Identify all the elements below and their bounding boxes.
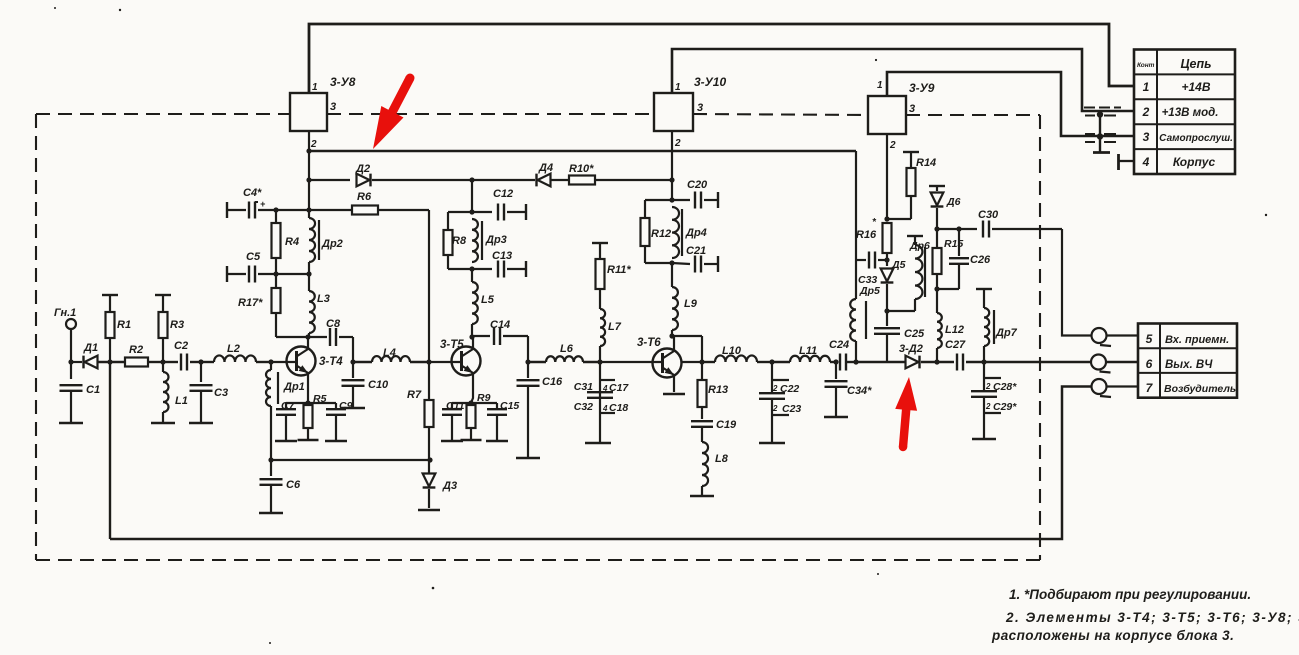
wire T4 emitter bbox=[307, 373, 309, 403]
cable shield of wires 2 and 3 bbox=[1084, 107, 1095, 109]
choke Dr2 bbox=[309, 218, 315, 262]
svg-text:L4: L4 bbox=[383, 347, 396, 359]
svg-text:R8: R8 bbox=[452, 235, 467, 247]
capacitor C13 bbox=[469, 266, 474, 271]
connector table (pins 5-7) frame bbox=[1138, 324, 1237, 398]
resistor R14 bbox=[903, 151, 919, 153]
svg-text:C4*: C4* bbox=[243, 187, 262, 199]
svg-text:C10: C10 bbox=[368, 379, 389, 391]
svg-text:C29*: C29* bbox=[993, 401, 1017, 413]
transistor Q2 3-T5 bbox=[452, 347, 481, 376]
block boundary bottom edge bbox=[36, 559, 1040, 561]
wire T5 emitter bbox=[471, 373, 473, 403]
svg-text:R9: R9 bbox=[477, 392, 491, 404]
block boundary top segment 3 bbox=[693, 114, 868, 115]
wire rail from U8 pin2 bbox=[309, 150, 856, 152]
svg-text:C16: C16 bbox=[542, 376, 563, 388]
svg-text:4: 4 bbox=[602, 404, 608, 413]
bottom return rail bbox=[110, 387, 1091, 540]
paper specks bbox=[119, 9, 121, 11]
svg-text:L2: L2 bbox=[227, 343, 240, 355]
svg-text:C27: C27 bbox=[945, 339, 966, 351]
wire U9 pin2 vertical bbox=[886, 134, 888, 219]
capacitor C20 bbox=[672, 199, 690, 201]
node line C11 R9 C15 bbox=[452, 402, 497, 404]
capacitor C8 bbox=[329, 328, 331, 346]
svg-text:2: 2 bbox=[985, 382, 991, 391]
svg-text:2: 2 bbox=[310, 139, 317, 150]
svg-text:1: 1 bbox=[877, 80, 883, 91]
svg-text:C6: C6 bbox=[286, 479, 301, 491]
svg-text:2: 2 bbox=[889, 140, 896, 151]
resistor R15 bbox=[933, 248, 942, 274]
inductor L2 bbox=[214, 355, 256, 362]
capacitor C28* bbox=[983, 362, 985, 391]
resistor R12 bbox=[645, 199, 672, 201]
svg-text:+: + bbox=[260, 199, 266, 209]
capacitor C12 bbox=[472, 211, 492, 213]
svg-text:L1: L1 bbox=[175, 395, 188, 407]
wire left return vertical bbox=[109, 362, 111, 539]
svg-text:C20: C20 bbox=[687, 179, 708, 191]
module U2 3-U10 bbox=[654, 93, 693, 131]
capacitor C15 bbox=[496, 403, 498, 409]
node line C7 R5 C9 bbox=[286, 402, 336, 404]
svg-text:+13В мод.: +13В мод. bbox=[1162, 107, 1219, 119]
connector pin 6 circle bbox=[1091, 355, 1106, 370]
svg-text:Цепь: Цепь bbox=[1180, 57, 1211, 71]
svg-text:R13: R13 bbox=[708, 384, 728, 396]
svg-text:R5: R5 bbox=[313, 393, 327, 405]
svg-text:3-У10: 3-У10 bbox=[694, 75, 726, 89]
svg-text:C22: C22 bbox=[780, 383, 799, 395]
svg-text:2: 2 bbox=[772, 384, 778, 393]
svg-text:C13: C13 bbox=[492, 250, 512, 262]
connector pin 5 circle bbox=[1092, 328, 1107, 343]
svg-text:Др2: Др2 bbox=[321, 238, 343, 250]
svg-text:C15: C15 bbox=[500, 400, 519, 412]
svg-text:3-Т6: 3-Т6 bbox=[637, 337, 661, 349]
svg-text:C23: C23 bbox=[782, 403, 801, 415]
svg-text:Гн.1: Гн.1 bbox=[54, 307, 76, 319]
svg-text:расположены на корпусе бло: расположены на корпусе блока 3. bbox=[991, 628, 1234, 643]
svg-text:L8: L8 bbox=[715, 453, 729, 465]
inductor L9 bbox=[671, 263, 673, 287]
resistor R5 bbox=[304, 405, 313, 428]
wire T6 emitter ground bbox=[673, 375, 675, 392]
svg-text:L5: L5 bbox=[481, 294, 495, 306]
svg-text:L3: L3 bbox=[317, 293, 330, 305]
svg-text:R7: R7 bbox=[407, 389, 422, 401]
svg-text:C3: C3 bbox=[214, 387, 228, 399]
wire T6 collector node bbox=[673, 336, 675, 351]
svg-text:C9: C9 bbox=[339, 400, 353, 412]
capacitor C6 bbox=[270, 460, 272, 476]
block boundary (dash-dot frame) bbox=[36, 113, 290, 115]
svg-text:3-У8: 3-У8 bbox=[330, 75, 356, 89]
svg-text:3: 3 bbox=[330, 101, 336, 113]
svg-text:C26: C26 bbox=[970, 254, 991, 266]
connector table (pins 1-4) frame bbox=[1134, 50, 1235, 175]
svg-text:7: 7 bbox=[1146, 381, 1154, 395]
svg-text:Корпус: Корпус bbox=[1173, 155, 1216, 169]
diode D1 bbox=[85, 356, 98, 369]
module U3 3-U9 bbox=[868, 96, 906, 134]
capacitor C34* bbox=[830, 361, 836, 363]
svg-text:6: 6 bbox=[1146, 357, 1153, 371]
inductor L1 bbox=[162, 362, 164, 372]
capacitor C19 bbox=[691, 420, 713, 422]
svg-text:C8: C8 bbox=[326, 318, 341, 330]
block boundary top segment 2 bbox=[327, 113, 654, 115]
svg-text:3: 3 bbox=[697, 102, 703, 114]
resistor R3 bbox=[155, 294, 171, 296]
svg-text:C1: C1 bbox=[86, 384, 100, 396]
wire +13V mod rail from U10 pin1 to connector pin 2 bbox=[672, 49, 1134, 111]
svg-text:2: 2 bbox=[772, 404, 778, 413]
svg-text:C11: C11 bbox=[446, 400, 465, 412]
diode D2 bbox=[309, 179, 350, 181]
wire T5 collector bbox=[472, 337, 474, 349]
svg-text:Д2: Д2 bbox=[355, 163, 370, 175]
svg-text:Д6: Д6 bbox=[946, 196, 961, 208]
svg-text:1: 1 bbox=[675, 82, 681, 93]
capacitor C7 bbox=[285, 403, 287, 409]
svg-text:5: 5 bbox=[1146, 332, 1153, 346]
choke Dr6 bbox=[907, 235, 923, 237]
capacitor C31 C17 bbox=[599, 362, 601, 443]
svg-text:Д4: Д4 bbox=[538, 162, 553, 174]
svg-text:Д1: Д1 bbox=[83, 342, 98, 354]
inductor L8 bbox=[702, 442, 708, 486]
svg-text:C2: C2 bbox=[174, 340, 188, 352]
capacitor C16 bbox=[527, 362, 529, 378]
block boundary left edge bbox=[35, 114, 37, 560]
svg-text:R6: R6 bbox=[357, 191, 372, 203]
svg-text:R11*: R11* bbox=[607, 264, 631, 276]
diode D3 bbox=[428, 460, 430, 473]
svg-text:R1: R1 bbox=[117, 319, 131, 331]
svg-text:L12: L12 bbox=[945, 324, 964, 336]
inductor L4 bbox=[353, 361, 372, 363]
svg-text:R12: R12 bbox=[651, 228, 671, 240]
svg-text:3-Т4: 3-Т4 bbox=[319, 356, 343, 368]
svg-text:2: 2 bbox=[985, 402, 991, 411]
svg-text:C24: C24 bbox=[829, 339, 849, 351]
resistor R11* bbox=[592, 242, 608, 244]
svg-text:C19: C19 bbox=[716, 419, 737, 431]
wire D1 to R2 bbox=[98, 361, 125, 363]
resistor R1 bbox=[102, 294, 118, 296]
svg-text:Др3: Др3 bbox=[485, 234, 507, 246]
svg-text:2: 2 bbox=[674, 138, 681, 149]
inductor L10 bbox=[702, 361, 715, 363]
svg-text:1: 1 bbox=[1143, 80, 1150, 94]
resistor R7 bbox=[428, 362, 430, 400]
capacitor C5 bbox=[226, 266, 228, 282]
svg-text:Др5: Др5 bbox=[859, 285, 880, 297]
svg-text:C5: C5 bbox=[246, 251, 261, 263]
svg-text:2: 2 bbox=[1142, 105, 1150, 119]
svg-text:3-У9: 3-У9 bbox=[909, 81, 935, 95]
svg-text:1. *Подбирают при регулирова: 1. *Подбирают при регулировании. bbox=[1009, 587, 1251, 602]
svg-text:C14: C14 bbox=[490, 319, 510, 331]
capacitor C14 bbox=[472, 335, 490, 337]
diode V2 3-D2 bbox=[857, 361, 905, 363]
capacitor C23 bbox=[771, 399, 773, 443]
inductor L11 bbox=[790, 356, 830, 362]
svg-text:Др6: Др6 bbox=[909, 240, 930, 252]
capacitor C30 bbox=[937, 228, 977, 230]
node L7 column bbox=[597, 359, 602, 364]
capacitor C10 bbox=[350, 359, 355, 364]
resistor R6 bbox=[309, 209, 352, 211]
svg-text:Др4: Др4 bbox=[685, 227, 707, 239]
wire C4 line bbox=[276, 209, 309, 211]
svg-text:Конт: Конт bbox=[1137, 62, 1155, 69]
choke Dr1 bbox=[270, 362, 272, 370]
chassis ground at pin 4 bbox=[1117, 154, 1120, 170]
inductor L5 bbox=[471, 269, 473, 282]
svg-text:1: 1 bbox=[312, 82, 318, 93]
svg-text:3: 3 bbox=[1143, 130, 1150, 144]
wire T4 collector bbox=[307, 337, 309, 349]
svg-text:3: 3 bbox=[909, 103, 915, 115]
svg-text:R2: R2 bbox=[129, 344, 143, 356]
module U1 3-U8 bbox=[290, 93, 327, 131]
capacitor C3 bbox=[198, 359, 203, 364]
wire to pin 5 receiver bbox=[1062, 229, 1091, 336]
svg-text:L9: L9 bbox=[684, 298, 698, 310]
capacitor C26 bbox=[956, 226, 961, 231]
capacitor C21 bbox=[669, 260, 674, 265]
choke Dr7 bbox=[976, 288, 992, 290]
svg-text:C34*: C34* bbox=[847, 385, 872, 397]
wire samoproslush rail from U9 pin1 to connector pin 3 bbox=[887, 72, 1134, 136]
svg-text:L6: L6 bbox=[560, 343, 574, 355]
svg-text:R4: R4 bbox=[285, 236, 299, 248]
connector pin 7 circle bbox=[1092, 379, 1107, 394]
inductor L12 bbox=[936, 289, 938, 313]
wire collector node line bbox=[276, 336, 327, 338]
svg-text:3-Т5: 3-Т5 bbox=[440, 339, 464, 351]
wire R6 to R7 column bbox=[428, 210, 430, 362]
svg-text:4: 4 bbox=[1142, 155, 1150, 169]
svg-text:C12: C12 bbox=[493, 188, 513, 200]
capacitor C4 bbox=[226, 202, 228, 218]
inductor L3 bbox=[308, 274, 310, 291]
svg-text:C17: C17 bbox=[609, 382, 629, 394]
wire U10 pin2 vertical bbox=[671, 131, 673, 180]
wire U10 stage column top bbox=[471, 180, 473, 212]
capacitor C9 bbox=[335, 403, 337, 409]
choke Dr4 bbox=[672, 207, 679, 258]
block boundary top segment 4 bbox=[906, 114, 1040, 116]
transistor Q1 3-T4 bbox=[287, 347, 316, 376]
capacitor C11 bbox=[451, 403, 453, 409]
svg-text:C7: C7 bbox=[281, 400, 296, 412]
node Dr7 column bbox=[981, 359, 986, 364]
svg-text:R14: R14 bbox=[916, 157, 936, 169]
resistor R9 bbox=[467, 405, 476, 428]
svg-text:C33: C33 bbox=[858, 274, 877, 286]
block boundary right edge bbox=[1039, 115, 1041, 560]
resistor R10* bbox=[551, 179, 569, 181]
transistor Q3 3-T6 bbox=[653, 349, 682, 378]
choke Dr5 bbox=[855, 151, 857, 299]
node R7 column on main line bbox=[426, 359, 431, 364]
diode D6 bbox=[929, 185, 945, 187]
svg-text:R3: R3 bbox=[170, 319, 184, 331]
svg-text:R15: R15 bbox=[944, 238, 963, 250]
svg-text:C25: C25 bbox=[904, 328, 925, 340]
red arrow pointing to D2 bbox=[373, 76, 414, 149]
wire to pin 6 output bbox=[984, 361, 1091, 363]
capacitor C22 bbox=[771, 362, 773, 393]
svg-text:C30: C30 bbox=[978, 209, 999, 221]
wire +14V rail from U8 pin1 to connector pin 1 bbox=[309, 24, 1134, 93]
svg-text:L7: L7 bbox=[608, 321, 622, 333]
svg-text:*: * bbox=[872, 217, 877, 228]
svg-text:C31: C31 bbox=[574, 381, 593, 393]
node C22 column bbox=[769, 359, 774, 364]
resistor R4 bbox=[272, 223, 281, 258]
wire C5 line bbox=[276, 273, 309, 275]
capacitor C27 bbox=[921, 361, 954, 363]
svg-text:Др7: Др7 bbox=[995, 327, 1018, 339]
svg-text:3-Д2: 3-Д2 bbox=[899, 343, 923, 355]
svg-text:Д3: Д3 bbox=[442, 480, 457, 492]
svg-text:C18: C18 bbox=[609, 402, 628, 414]
svg-text:C28*: C28* bbox=[993, 381, 1017, 393]
svg-text:Возбудитель: Возбудитель bbox=[1164, 383, 1236, 395]
svg-text:R16: R16 bbox=[856, 229, 877, 241]
svg-text:Вых. ВЧ: Вых. ВЧ bbox=[1165, 359, 1213, 371]
wire U8 pin2 vertical bbox=[308, 131, 310, 210]
capacitor C24 bbox=[839, 354, 841, 371]
capacitor C33 bbox=[868, 252, 870, 269]
svg-text:Вх. приемн.: Вх. приемн. bbox=[1165, 334, 1229, 346]
svg-text:C32: C32 bbox=[574, 401, 593, 413]
svg-text:+14В: +14В bbox=[1181, 80, 1210, 94]
svg-text:L10: L10 bbox=[722, 345, 742, 357]
svg-text:R10*: R10* bbox=[569, 163, 594, 175]
resistor R16* bbox=[883, 223, 892, 253]
capacitor C1 bbox=[70, 362, 72, 379]
svg-text:Д5: Д5 bbox=[891, 259, 906, 271]
svg-text:Самопрослуш.: Самопрослуш. bbox=[1159, 133, 1233, 144]
resistor R17* bbox=[272, 288, 281, 313]
svg-text:4: 4 bbox=[602, 384, 608, 393]
diode D5 bbox=[886, 253, 888, 266]
wire emitter rail to C6 row bbox=[271, 459, 430, 461]
node base T4 bbox=[268, 359, 273, 364]
red arrow pointing to 3-D2 bbox=[895, 377, 917, 447]
capacitor C29* bbox=[983, 397, 985, 439]
wire Gn.1 to node bbox=[70, 329, 72, 362]
inductor L7 bbox=[600, 309, 605, 346]
resistor R8 bbox=[448, 211, 472, 213]
svg-text:Др1: Др1 bbox=[283, 381, 305, 393]
choke Dr3 bbox=[472, 219, 478, 262]
capacitor C25 bbox=[886, 311, 888, 326]
resistor R2 bbox=[125, 358, 148, 367]
wire C14 drop bbox=[527, 336, 529, 362]
svg-text:2. Элементы 3-Т4; 3-Т5; 3-Т: 2. Элементы 3-Т4; 3-Т5; 3-Т6; 3-У8; 3 bbox=[1005, 610, 1299, 625]
resistor R13 bbox=[701, 362, 703, 380]
capacitor C2 bbox=[163, 361, 178, 363]
svg-text:C21: C21 bbox=[686, 245, 706, 257]
diode D4 bbox=[538, 174, 551, 187]
svg-text:R17*: R17* bbox=[238, 297, 263, 309]
inductor L6 bbox=[528, 361, 546, 363]
svg-text:L11: L11 bbox=[799, 345, 817, 357]
